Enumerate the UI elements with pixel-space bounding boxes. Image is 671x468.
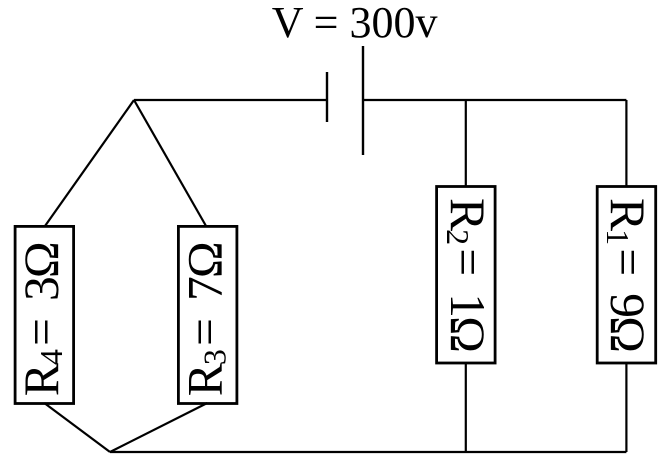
wire bottom rail	[110, 451, 626, 453]
wire diagonal node A to R4	[44, 100, 134, 227]
resistor R4	[14, 226, 74, 403]
wire R2 top stub	[465, 100, 467, 187]
resistor R1	[597, 187, 656, 364]
wire top-left (node A to battery)	[134, 99, 327, 101]
wire diagonal node A to R3	[134, 100, 207, 227]
battery V1 long plate	[362, 46, 364, 155]
resistor R3	[177, 226, 237, 403]
wire R2 bottom stub	[465, 363, 467, 452]
svg-text:V = 300v: V = 300v	[272, 0, 438, 47]
wire R1 top stub	[625, 100, 627, 187]
battery V1 short plate	[326, 72, 328, 122]
wire diagonal R3 to bottom node	[110, 403, 207, 452]
wire R1 bottom stub	[625, 363, 627, 452]
resistor R2	[437, 187, 496, 364]
wire diagonal R4 to bottom node	[44, 403, 110, 452]
wire top-right (battery to R1)	[363, 99, 626, 101]
